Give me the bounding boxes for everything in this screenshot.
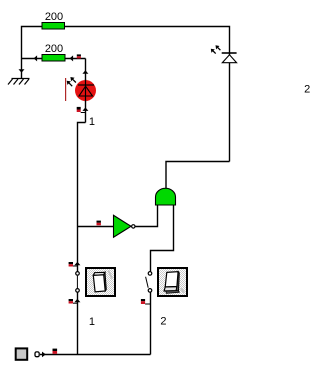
lamp LED D1 cathode bar (78, 84, 94, 86)
LED D2 emission arrow upper (216, 45, 221, 50)
current arrow into ground (19, 69, 25, 73)
wire lamp bottom jog (78, 123, 86, 272)
svg-text:1: 1 (89, 316, 95, 328)
svg-text:200: 200 (45, 11, 63, 23)
switch SW2 button box (158, 268, 187, 296)
resistor R2 (42, 55, 65, 62)
svg-text:2: 2 (160, 316, 166, 328)
current arrow below lamp (82, 107, 88, 111)
switch SW1 rocker right face (104, 272, 107, 291)
current arrow right of R2 (70, 55, 74, 61)
switch SW1 bottom terminal (76, 289, 80, 293)
LED D2 emission arrow lower (211, 49, 216, 54)
current arrow left of R2 (34, 55, 38, 61)
switch SW2 rocker right face (176, 272, 179, 291)
switch SW2 rocker bottom shadow (166, 291, 180, 294)
wire AND right input down to switch SW2 (151, 205, 174, 271)
switch SW2 rocker shadow smudge (181, 289, 184, 293)
switch SW1 rocker top face (93, 272, 105, 275)
svg-text:2: 2 (304, 84, 310, 96)
svg-text:1: 1 (89, 116, 95, 128)
switch SW1 top terminal (76, 272, 80, 276)
wire NOT gate output to AND left input (135, 205, 157, 227)
probe marker on NOT input (97, 221, 101, 226)
resistor R1 (42, 23, 65, 30)
lamp emission arrow upper (70, 77, 76, 83)
wire AND output to LED rail (166, 162, 230, 189)
power supply block B1 (16, 348, 28, 359)
switch SW1 rocker front face (93, 275, 105, 292)
current arrow below SW1 (74, 299, 80, 303)
AND gate U1 (156, 188, 176, 205)
probe marker on R2 right wire (77, 54, 81, 58)
wire switch SW1 bottom (77, 292, 79, 354)
wire switch SW2 bottom (150, 292, 152, 354)
wire top rail left corner (22, 27, 230, 162)
NOT gate U2 bubble (132, 225, 135, 228)
switch SW2 lever open (146, 277, 149, 288)
probe marker above SW1 (69, 262, 78, 267)
probe marker at lamp bottom (77, 107, 86, 113)
lamp LED D1 wire through (85, 79, 87, 102)
probe marker below SW2 (141, 299, 151, 304)
wire middle branch through R2 (22, 58, 86, 60)
lamp LED D1 lit body (75, 80, 96, 101)
current arrow above SW1 (74, 262, 80, 266)
lamp LED D1 triangle (79, 86, 93, 96)
switch SW2 rocker bottom face (164, 287, 177, 292)
switch SW2 rocker front face (165, 272, 178, 287)
svg-text:200: 200 (45, 43, 63, 55)
wire bottom rail (40, 354, 151, 356)
probe marker below SW1 (69, 299, 78, 304)
brightness bar beside lamp (65, 78, 66, 101)
terminal circle on bottom rail (35, 352, 39, 357)
current arrow above lamp (82, 70, 88, 74)
switch SW1 rocker shadow smudge (109, 271, 113, 279)
switch SW2 bottom terminal (148, 289, 152, 293)
wire lamp vertical (85, 59, 87, 123)
lamp emission arrow lower (67, 81, 73, 87)
current arrow bottom rail (42, 352, 46, 358)
NOT gate U2 triangle (114, 215, 132, 237)
LED D2 triangle (222, 55, 236, 63)
wire NOT gate input branch (78, 226, 114, 228)
switch SW2 top terminal (148, 272, 152, 276)
switch SW1 button box (86, 268, 115, 296)
ground symbol (8, 79, 30, 85)
LED D2 cathode bar (222, 52, 237, 54)
probe marker on bottom rail (53, 349, 58, 354)
switch SW1 lever closed (76, 276, 78, 289)
